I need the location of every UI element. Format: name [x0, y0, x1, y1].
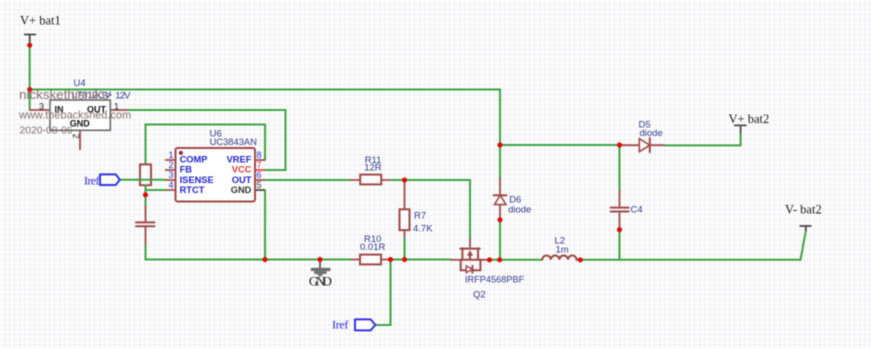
wire drain down [469, 180, 471, 238]
svg-text:GND: GND [309, 274, 332, 289]
junction dot R10 right [388, 257, 393, 262]
capacitor timing [136, 206, 155, 246]
junction dot C4 bottom [617, 227, 622, 232]
svg-text:12V: 12V [115, 90, 131, 101]
svg-text:www.thebackshed.com: www.thebackshed.com [18, 109, 131, 121]
svg-text:Iref: Iref [332, 318, 348, 332]
svg-text:1m: 1m [556, 244, 569, 255]
svg-text:6: 6 [257, 170, 262, 180]
wire U6 pin5 GND down [264, 190, 266, 260]
wire top node to D5/C4 [500, 144, 620, 146]
terminal V- bat2 [785, 202, 822, 231]
svg-text:GND: GND [231, 185, 252, 195]
svg-text:8: 8 [257, 150, 262, 160]
wire top rail to x500 [30, 89, 500, 91]
wire down to Iref flag [375, 260, 390, 326]
svg-text:2020-08-06: 2020-08-06 [20, 125, 74, 136]
diode D6 [494, 178, 532, 220]
svg-text:V+ bat2: V+ bat2 [729, 112, 770, 126]
resistor R10 0.01R [351, 234, 391, 264]
junction dot source rail [497, 257, 502, 262]
capacitor C4 [611, 145, 643, 230]
inductor L2 1m [542, 235, 580, 259]
junction dot pin5 rail [262, 257, 267, 262]
wire bat1 vertical [29, 40, 31, 110]
wire resistor bottom to cap [145, 185, 147, 205]
svg-text:4: 4 [168, 180, 173, 190]
diode D5 [620, 119, 666, 152]
svg-text:C4: C4 [631, 205, 643, 216]
resistor R11 12R [350, 155, 391, 185]
junction dot R11/R7 [402, 177, 407, 182]
wire rail to V- bat2 [580, 231, 806, 260]
resistor timing (left of U6) [140, 164, 151, 185]
svg-text:5: 5 [257, 180, 262, 190]
wire Iref to ISENSE [120, 179, 165, 181]
svg-text:0.01R: 0.01R [360, 242, 385, 253]
svg-text:2: 2 [168, 160, 173, 170]
resistor R7 4.7K [400, 181, 434, 239]
transistor Q2 IRFP4568PBF [450, 238, 524, 301]
svg-text:3: 3 [168, 170, 173, 180]
svg-text:12R: 12R [364, 163, 382, 174]
junction dot top node [497, 142, 502, 147]
flag Iref bottom [332, 318, 375, 332]
junction dot L2 right [578, 257, 583, 262]
watermark overlay [18, 87, 131, 137]
svg-text:FB: FB [180, 165, 193, 175]
svg-text:nickskethisniks: nickskethisniks [19, 87, 108, 102]
svg-text:diode: diode [508, 204, 531, 215]
wire VREF riser [146, 125, 266, 165]
svg-text:RTCT: RTCT [180, 185, 205, 195]
wire U4 out to VCC riser [129, 110, 286, 170]
ground symbol GND [309, 260, 332, 289]
svg-text:1: 1 [168, 150, 173, 160]
junction dot source stub [487, 257, 492, 262]
svg-text:4.7K: 4.7K [413, 224, 433, 235]
junction dot C4 top [617, 142, 622, 147]
wire RTCT [146, 189, 166, 191]
svg-text:OUT: OUT [232, 175, 252, 185]
op-amp U6 UC3843AN [165, 128, 265, 201]
terminal V+ bat2 [729, 112, 770, 133]
junction dot below bat1 [27, 43, 32, 48]
svg-text:ISENSE: ISENSE [180, 175, 214, 185]
svg-text:R7: R7 [414, 210, 426, 221]
junction dot R7 bottom [402, 257, 407, 262]
svg-text:IRFP4568PBF: IRFP4568PBF [465, 275, 524, 286]
wire OUT to R11 [265, 179, 350, 181]
terminal V+ bat1 [20, 14, 61, 42]
wire R7 bottom [404, 238, 406, 260]
wire rail to gate [391, 259, 451, 261]
junction dot ground [317, 257, 322, 262]
svg-text:7: 7 [257, 160, 262, 170]
svg-text:Iref: Iref [84, 174, 100, 188]
wire D5 to terminal V+ bat2 [665, 133, 740, 145]
wire x500 down to node [499, 90, 501, 146]
svg-text:COMP: COMP [180, 154, 208, 164]
svg-text:VCC: VCC [232, 165, 252, 175]
regulator U4 [30, 78, 131, 150]
wire top node down through D6 [499, 145, 501, 178]
wire source rail to L2 [490, 259, 543, 261]
svg-text:diode: diode [640, 128, 663, 139]
junction dot RC node [143, 192, 148, 197]
svg-text:V- bat2: V- bat2 [785, 202, 822, 216]
wire C4 to rail [619, 230, 621, 260]
flag Iref left [84, 174, 120, 188]
junction node bat1 rail [27, 87, 32, 92]
svg-text:Q2: Q2 [473, 290, 486, 301]
svg-text:VREF: VREF [227, 154, 252, 164]
svg-text:UC3843AN: UC3843AN [210, 137, 257, 148]
wire cap to ground rail [146, 246, 352, 260]
wire R11 to drain corner [391, 179, 471, 181]
junction dot D6 bottom [497, 217, 502, 222]
wire D6 to rail [499, 220, 501, 260]
svg-text:V+ bat1: V+ bat1 [20, 14, 61, 28]
